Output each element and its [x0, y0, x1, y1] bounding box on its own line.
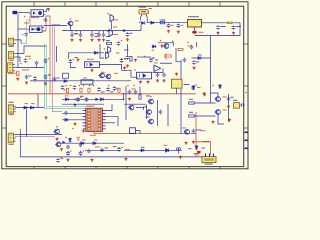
power pin Q2 pin — [107, 13, 109, 15]
optocoupler U1 — [29, 10, 46, 16]
label u5 note — [90, 134, 96, 137]
transistor Q13 — [184, 129, 190, 134]
wire J2 w2 — [16, 57, 20, 62]
power pin q18 p2 — [172, 41, 174, 43]
optocoupler U2 — [27, 26, 44, 33]
label net name r3 — [203, 140, 210, 143]
wire v56 wire — [56, 46, 58, 62]
wire magenta net A2 — [54, 27, 56, 82]
label C11 val — [236, 25, 241, 28]
diode D9 — [23, 106, 28, 109]
label lbl dm4 — [141, 146, 145, 149]
transistor Q7 — [96, 98, 99, 102]
ground G C11 — [232, 32, 235, 35]
wire vg127 — [127, 44, 129, 55]
label lbl q6 — [114, 72, 118, 75]
power pin pb5 — [89, 85, 91, 87]
arrow Am1 — [63, 141, 66, 144]
capacitor Ck1 — [128, 90, 132, 94]
power pin pr3 — [195, 84, 197, 86]
power pin cf1 p — [125, 58, 127, 60]
label c4 val — [95, 35, 99, 38]
ground G r-mid — [211, 121, 214, 124]
power pin q18 p1 — [160, 40, 162, 42]
resistor Rk1 — [139, 95, 141, 99]
label J5 lbl — [8, 143, 14, 146]
power pin cf2 p — [121, 40, 123, 42]
transistor Q11 — [54, 129, 60, 134]
label U5 ref — [87, 105, 95, 108]
power pin pm2 — [65, 137, 67, 139]
connector J3 — [8, 63, 15, 73]
resistor R4 — [178, 48, 183, 50]
capacitor C3 — [79, 33, 83, 37]
power pin pm1 — [60, 157, 62, 159]
label J3 lbl — [8, 72, 14, 75]
transistor Q1 — [67, 21, 73, 26]
label cg1 lbl — [124, 49, 129, 52]
label lbl c26 — [80, 95, 84, 98]
label lbl q10 — [223, 109, 227, 112]
ground G cf1 — [123, 66, 126, 69]
wire C3 lead — [80, 31, 82, 33]
wire J3 w mid — [15, 67, 44, 69]
diode Dm3 — [92, 142, 97, 145]
ground G C10 — [216, 32, 219, 35]
ground G C23 — [202, 92, 205, 95]
transistor Q14 — [166, 149, 169, 153]
label R2 lbl — [106, 39, 110, 42]
label D5 pin — [152, 49, 155, 52]
label lbl u6b — [143, 106, 147, 109]
wire u5 right w2 — [106, 117, 118, 126]
capacitor Cb1 — [97, 87, 101, 91]
label Q2 lbl — [113, 19, 118, 22]
label lbl k2 — [83, 77, 87, 80]
label lbl u4b — [154, 62, 158, 65]
resistor Rb4 — [118, 88, 120, 92]
label lbl d9 — [25, 102, 29, 105]
ground G K1a — [76, 58, 79, 61]
label lbl c25 — [196, 61, 199, 64]
capacitor C27 — [85, 97, 89, 101]
label lbl c15 — [29, 75, 32, 78]
label junction lbl — [199, 31, 204, 34]
power pin pb3 — [79, 85, 81, 87]
wire U2 wires — [44, 30, 46, 32]
capacitor Cb3 — [61, 85, 65, 89]
wire c20 lead — [152, 57, 154, 59]
wire magenta net A — [52, 25, 62, 112]
wire h57 wire — [137, 56, 151, 58]
power pin pk1 — [127, 85, 129, 87]
label lbl dm3 — [94, 139, 98, 142]
net stub edge1 — [245, 132, 248, 134]
label lbl q2b — [113, 26, 117, 29]
fuse F1 — [227, 22, 232, 24]
wire q9 wire — [195, 102, 216, 104]
diode Dm4 — [140, 149, 145, 152]
label lbl dm2 — [82, 139, 86, 142]
transistor Q16 — [146, 110, 152, 115]
sheet border outer — [2, 2, 248, 169]
diode D2 — [150, 21, 155, 24]
ground G u5 — [73, 123, 76, 126]
ground G m — [90, 159, 93, 162]
wire h53 wire — [69, 52, 105, 54]
ground G C25 — [192, 67, 195, 70]
wire c19 wires — [71, 64, 77, 68]
wire u5 left w1 — [62, 113, 83, 115]
wire K1 out — [99, 65, 138, 78]
relay K1 — [85, 62, 100, 68]
wire v181 — [180, 60, 182, 79]
ground G Cr1 — [227, 105, 230, 108]
regulator VR1 — [188, 20, 202, 28]
wire q10 em — [218, 115, 224, 124]
label lbl q13 — [182, 127, 186, 130]
label lbl u6c — [146, 116, 150, 119]
diode D5 — [152, 45, 157, 48]
power pin pk2 — [133, 85, 135, 87]
power pin Q4 p — [104, 48, 106, 50]
wire v26 wire — [26, 110, 28, 137]
wire k wires2 — [136, 108, 144, 111]
sheet border inner — [6, 6, 244, 166]
wire Q2-Q3 wire — [111, 22, 113, 30]
ground G ic-l — [82, 129, 85, 132]
label J4 lbl — [9, 113, 15, 116]
junction jb2 — [123, 98, 125, 100]
diode D8 — [100, 98, 105, 101]
label C3 val — [95, 32, 99, 35]
power pin pr1 — [245, 92, 247, 94]
diode Dp1 — [195, 145, 198, 150]
wire u5 right w1 — [106, 104, 112, 110]
label lbl cb2 — [110, 91, 114, 94]
wire q18 out — [176, 48, 181, 62]
label U1 label — [31, 16, 39, 19]
capacitor Cm8 — [87, 149, 91, 153]
power pin J3 p — [20, 63, 22, 65]
wire h81 wire — [30, 80, 62, 82]
capacitor C18 — [53, 77, 57, 81]
label lbl cm1 — [61, 157, 64, 160]
label lbl rb1 — [64, 89, 68, 92]
wire Q1 em — [70, 26, 72, 31]
label U2 lbl — [32, 28, 39, 31]
capacitor C22 — [162, 73, 166, 77]
label cm6 lbl — [95, 146, 100, 149]
capacitor Cm6 — [100, 148, 104, 152]
transistor Q6 — [105, 74, 111, 79]
diode D7 — [65, 98, 70, 101]
junction p — [197, 151, 201, 153]
ground G3 — [79, 39, 82, 42]
ground G C6 — [126, 38, 129, 41]
wire cyan net D — [148, 10, 150, 14]
wire v18b — [17, 14, 19, 68]
wire cyan net B — [45, 44, 97, 109]
label lbl r1 — [14, 72, 17, 75]
label lbl cg2 — [155, 59, 158, 62]
wire v140 wire — [139, 87, 141, 95]
sheet zone tick marks — [2, 2, 248, 169]
wire v20 wire — [19, 131, 21, 157]
wire LS1 leads — [141, 14, 143, 21]
wire v38 wire — [37, 94, 39, 108]
ground G5 — [97, 39, 100, 42]
wire opamp fb — [158, 43, 174, 46]
label lbl dp1 — [202, 147, 206, 150]
wire v196 up — [196, 42, 198, 47]
wire brick net mid — [8, 93, 196, 95]
power pin pb2 — [70, 85, 72, 87]
power pin p2 — [76, 30, 78, 32]
power pin pb7 — [108, 85, 110, 87]
ground G o1 — [124, 158, 127, 161]
polarized capacitor Cm4 — [66, 150, 71, 155]
wire u4b fb — [153, 68, 164, 72]
wire q14 wire — [178, 148, 180, 154]
capacitor Cm4b — [66, 145, 70, 149]
ground G Cg1 — [126, 64, 129, 67]
power pin p U4 — [144, 56, 146, 58]
wire v166 red — [165, 53, 167, 60]
wire J5 w1 — [15, 133, 62, 135]
wire osc wires — [176, 88, 178, 94]
ground G Q12 — [60, 148, 63, 151]
wire brick net r2 — [104, 133, 196, 135]
diode Dm1 — [69, 138, 72, 143]
buzzer LS1 — [139, 9, 148, 14]
power pin p K3 — [134, 69, 136, 71]
power pin D1 pin — [139, 22, 141, 24]
capacitor Cp1 — [194, 154, 200, 156]
label lbl d10 — [31, 102, 35, 105]
wire cyan net C — [47, 46, 93, 106]
label c2 val — [75, 33, 78, 36]
resistor C7 — [160, 22, 165, 24]
capacitor Cg1 — [126, 55, 130, 59]
capacitor Cm3 — [79, 143, 83, 147]
ground G h99 — [73, 104, 76, 107]
capacitor Ch3 — [183, 58, 187, 62]
power pin p1 — [24, 16, 26, 18]
wire v126 wire — [125, 86, 127, 120]
power pin v20 p — [20, 129, 22, 131]
wire h53 drop — [68, 53, 70, 59]
net stub edge2 — [245, 140, 248, 142]
wire q10 wire — [195, 115, 216, 117]
label U2 ref — [24, 22, 29, 25]
wire C6 lead — [103, 31, 105, 33]
ground G Cr2 — [228, 119, 231, 122]
net stub edge3 — [245, 148, 248, 150]
wire VR1 out — [202, 22, 241, 24]
label lbl d6 — [198, 54, 202, 57]
resistor Rb3 — [88, 88, 90, 92]
label lbl rr2 — [189, 111, 193, 114]
diode D4 — [63, 80, 68, 83]
power pin q15 p — [150, 96, 152, 98]
transistor Q17 — [148, 119, 154, 124]
transistor Q15 — [148, 99, 154, 104]
capacitor C25 — [192, 60, 196, 64]
label lbl dr1 — [197, 86, 201, 89]
junction jb3 — [74, 99, 76, 101]
capacitor Cq1 — [192, 129, 196, 133]
wire J2 w1 — [16, 46, 47, 53]
capacitor C4 — [90, 33, 94, 37]
crystal Y2 — [234, 103, 240, 109]
wire u5 bot wire — [94, 132, 104, 134]
resistor Rq1 — [177, 148, 181, 150]
wire q9 col — [211, 93, 219, 97]
ground G K3b — [146, 81, 149, 84]
power pin pb6 — [93, 85, 95, 87]
wire right drop — [195, 23, 241, 36]
ground G J4 — [44, 116, 47, 119]
polarized capacitor C19 — [69, 59, 74, 64]
label lbl q14 — [164, 144, 168, 147]
wire u5 right w3 — [106, 122, 115, 124]
capacitor C21 — [156, 73, 160, 77]
wire u5 left w2 — [62, 119, 83, 121]
ground G C8 — [167, 30, 170, 33]
ground G4 — [90, 39, 93, 42]
capacitor Cf2 — [117, 41, 121, 45]
polarized capacitor Cm7 — [117, 147, 122, 152]
capacitor Ck3 — [159, 110, 163, 114]
resistor R2 — [107, 42, 112, 44]
label vout lbl — [22, 69, 29, 72]
wire C4 lead — [91, 31, 93, 33]
label Q3 lbl — [113, 33, 118, 36]
wire h80.8 — [62, 80, 131, 82]
label J1 lbl — [9, 45, 15, 48]
wire magenta net B — [15, 136, 55, 138]
label cq1 lbl — [197, 129, 202, 132]
ground G rf1 — [134, 59, 137, 62]
label lbl d7 — [65, 95, 69, 98]
label lbl c9 — [181, 24, 184, 27]
wire VR1 gnd lead — [194, 27, 196, 31]
capacitor C23 — [191, 86, 195, 90]
capacitor C5 — [97, 33, 101, 37]
power pin pb4 — [83, 85, 85, 87]
diode Dr2 — [219, 84, 222, 89]
wire j6 left wire — [188, 148, 192, 150]
label J2 lbl — [9, 59, 15, 62]
capacitor C2 — [70, 33, 74, 37]
mosfet Q4 — [106, 47, 111, 59]
label lbl j4 — [9, 101, 14, 104]
junction — [192, 31, 197, 34]
diode D11 — [64, 118, 69, 121]
label lbl y2 — [233, 99, 238, 102]
diode Dr1 — [192, 85, 195, 90]
label lbl r-mid — [201, 129, 206, 132]
wire C2 lead — [71, 31, 73, 33]
ground G2 — [70, 39, 73, 42]
connector J6 — [202, 154, 216, 163]
wire Q3 col — [106, 30, 109, 33]
wire Q1 base wire — [44, 25, 68, 27]
capacitor C10 — [216, 25, 220, 29]
capacitor C11 — [232, 25, 236, 29]
power symbol VCC U1 — [47, 8, 50, 11]
wire v157 wire — [157, 100, 159, 126]
label lbl rr1 — [189, 98, 193, 101]
transistor Q3 — [109, 30, 113, 37]
wire v228 wire — [228, 94, 230, 122]
label J6 lbl — [205, 163, 213, 166]
power pin pb1 — [65, 85, 67, 87]
wire LS1 lead2 — [146, 14, 147, 23]
power pin p c24 — [187, 42, 189, 44]
IC U5 — [86, 108, 103, 131]
ground G R1 — [16, 78, 19, 81]
capacitor Cm2 — [77, 137, 80, 141]
ground G C15 — [25, 81, 28, 84]
label ca1 pin — [22, 33, 24, 36]
wire q4 net — [99, 44, 101, 57]
capacitor C6 — [102, 33, 106, 37]
resistor Rb2 — [80, 88, 82, 92]
ground G C21 — [156, 79, 159, 82]
wire h157 wire — [20, 156, 202, 158]
connector J2 — [8, 52, 15, 59]
label lbl c6 — [130, 32, 133, 35]
label Y1 lbl — [184, 83, 190, 86]
label lbl c24 — [188, 45, 191, 48]
capacitor Cb4 — [73, 85, 77, 89]
connector J1 — [8, 38, 15, 45]
wire h150b wire — [124, 149, 182, 151]
wire U1 in wire — [17, 12, 29, 14]
ground G C9 — [177, 30, 180, 33]
label lbl vq4 — [116, 52, 120, 55]
capacitor C13 — [35, 61, 39, 65]
diode D10 — [30, 106, 35, 109]
label U4 name — [160, 62, 172, 65]
wire brick net top — [46, 16, 50, 94]
resistor Rr2 — [189, 115, 195, 117]
resistor Rr1 — [189, 102, 195, 104]
ground G q14 — [179, 156, 182, 159]
wire right rail — [147, 22, 188, 24]
label lbl q5 — [101, 71, 105, 74]
label C7 val — [160, 19, 166, 22]
relay K3 — [137, 72, 152, 79]
capacitor C16 — [33, 76, 37, 80]
wire U1 out wire — [45, 9, 49, 11]
wire J1 w1 — [16, 40, 21, 44]
transistor Q5 — [99, 73, 105, 78]
wire v123 — [123, 94, 125, 100]
diode D1 — [141, 22, 146, 25]
wire h58 wire — [192, 57, 211, 59]
wire cyan net A2 — [27, 19, 32, 21]
diode D6 — [197, 57, 202, 60]
wire bus x210 — [210, 36, 212, 104]
transistor Q10 — [215, 110, 221, 115]
transistor Q8 — [128, 105, 134, 110]
capacitor C12 — [24, 58, 28, 62]
label K1 lbl — [87, 58, 94, 61]
wire u5 top wire — [62, 103, 104, 105]
